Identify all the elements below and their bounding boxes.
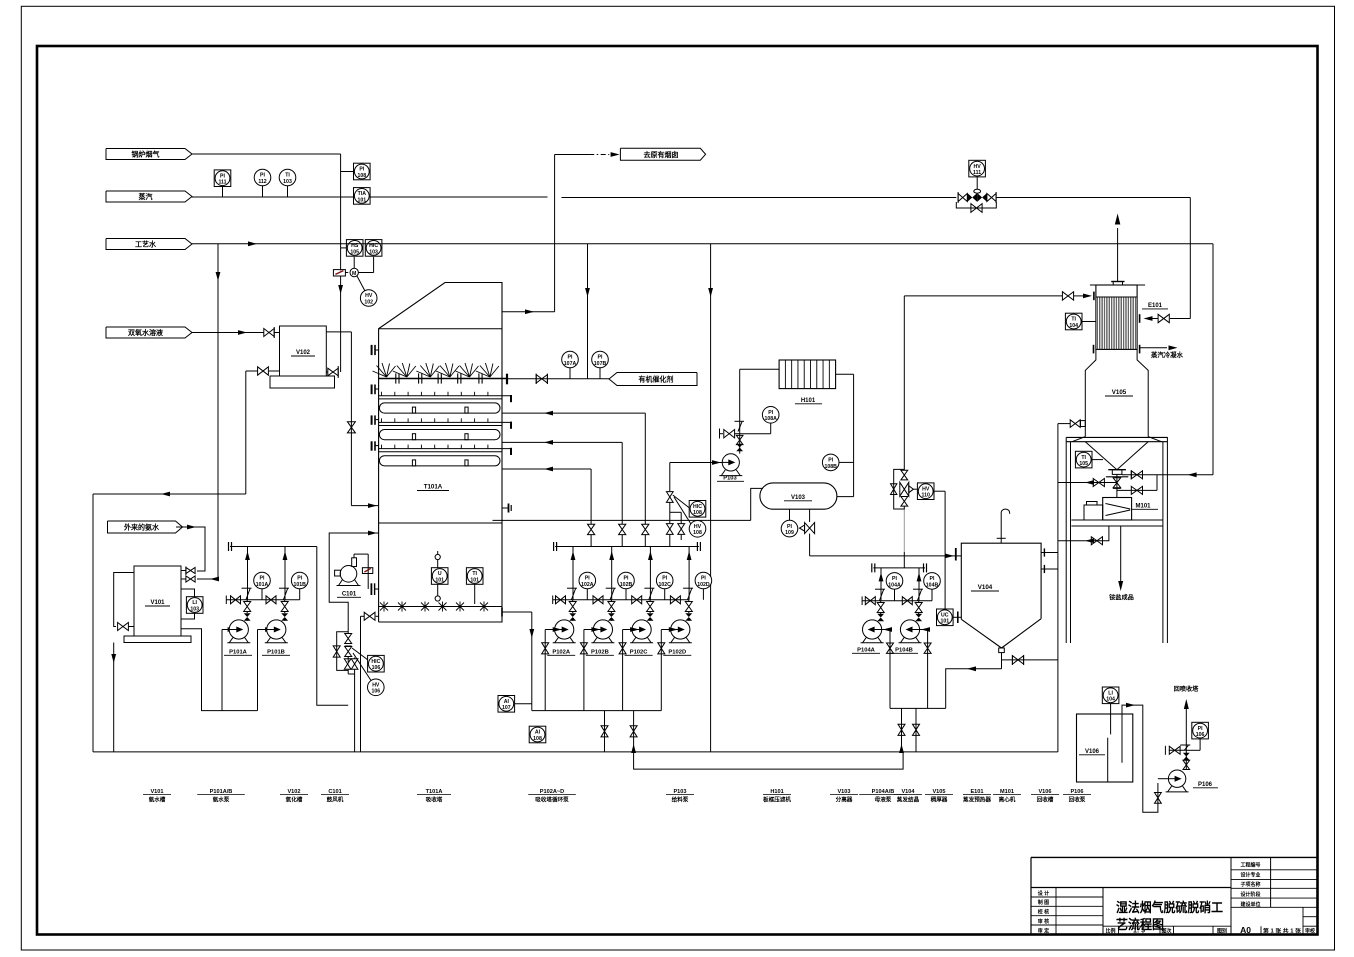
- tower spray header with nozzles: [373, 363, 508, 384]
- V104 right nozzle 2: [1041, 565, 1058, 573]
- svg-text:审 定: 审 定: [1038, 927, 1049, 934]
- svg-text:AI: AI: [504, 699, 510, 705]
- tower label T101A: [417, 484, 449, 491]
- E101 top cap: [1090, 282, 1145, 286]
- tower right nozzle: [502, 504, 511, 513]
- P104 discharge header: [872, 563, 927, 572]
- instrument HV-108: [689, 521, 706, 538]
- instrument PI-107A: [562, 351, 579, 379]
- wire P104 drain risers: [898, 708, 920, 753]
- flag 蒸汽 (steam): [106, 191, 192, 202]
- equipment label M101: [993, 789, 1021, 804]
- wire process water main: [192, 241, 1213, 246]
- svg-text:A0: A0: [1240, 925, 1251, 935]
- svg-text:LI: LI: [192, 600, 197, 606]
- equipment label V105: [925, 789, 953, 804]
- wire secondary line: [634, 752, 904, 769]
- wire V102 top outlet: [326, 332, 351, 506]
- label P102C: [625, 650, 653, 656]
- svg-text:图别: 图别: [1217, 927, 1227, 934]
- wire tower overflow line: [493, 519, 751, 521]
- svg-text:108: 108: [357, 173, 366, 179]
- label P101A: [224, 650, 252, 656]
- equipment label V104: [894, 789, 922, 804]
- V106 suction siphon: [1122, 703, 1161, 813]
- svg-text:V101: V101: [150, 789, 163, 795]
- V103 bottom valve: [800, 509, 815, 556]
- svg-text:PI: PI: [1198, 726, 1203, 732]
- P101B discharge riser: [279, 547, 289, 621]
- svg-text:回喷收塔: 回喷收塔: [1174, 685, 1200, 693]
- svg-text:PI: PI: [220, 173, 225, 179]
- flag 锅炉烟气 (boiler flue gas): [106, 149, 192, 160]
- svg-text:TI: TI: [1081, 455, 1086, 461]
- wire V101 drain downpipe: [111, 643, 116, 752]
- svg-text:102D: 102D: [697, 582, 710, 588]
- wire organic catalyst line: [507, 378, 609, 380]
- wire H2O2 to valve: [192, 330, 264, 335]
- svg-text:HV: HV: [365, 293, 373, 299]
- wire P102C suction: [619, 627, 639, 711]
- P101 discharge header: [229, 542, 317, 551]
- wire recovery downcomer: [1057, 424, 1059, 752]
- wire tray return 3: [502, 467, 591, 524]
- svg-text:105: 105: [350, 249, 359, 255]
- wire tower outlet gas: [502, 309, 555, 314]
- P102B discharge riser: [606, 547, 616, 621]
- pump P103: [719, 454, 742, 476]
- tower internal level line: [379, 522, 502, 524]
- svg-text:P101A/B: P101A/B: [210, 789, 233, 795]
- label P106: [1193, 782, 1218, 788]
- instrument PI-108B: [822, 454, 853, 471]
- instrument PI-102A: [579, 572, 596, 600]
- V104 feed nozzle flange: [956, 548, 962, 561]
- label C101: [337, 592, 361, 598]
- svg-text:LI: LI: [1108, 691, 1113, 697]
- wire V102 drain to downpipe: [246, 371, 258, 494]
- instrument PI-102C: [656, 572, 673, 600]
- title block right labels: [1239, 862, 1260, 908]
- svg-text:鼓风机: 鼓风机: [327, 796, 344, 804]
- svg-text:HV: HV: [922, 486, 930, 492]
- tower tray section 1: [379, 392, 511, 413]
- UC101 nozzle flange: [958, 612, 962, 624]
- valve riser4 main: [666, 524, 673, 535]
- wire pw branch long vertical: [708, 244, 713, 752]
- instrument TI-104: [1065, 313, 1096, 330]
- svg-text:V101: V101: [150, 600, 165, 606]
- svg-text:102: 102: [364, 299, 373, 305]
- leader HIC-106: [352, 648, 372, 682]
- P102 discharge header: [554, 542, 701, 551]
- P101 minflow line: [226, 596, 299, 605]
- svg-text:PI: PI: [624, 576, 629, 582]
- wire P101 header downpipe: [317, 547, 348, 706]
- M101 centrate line: [1058, 526, 1109, 545]
- svg-text:PI: PI: [768, 410, 773, 416]
- svg-text:审校: 审校: [1305, 927, 1316, 934]
- instrument AI-107: [498, 696, 532, 713]
- valve on V102-tower line: [347, 422, 355, 433]
- vessel V101: [134, 566, 181, 636]
- svg-text:AI: AI: [535, 730, 541, 736]
- C101 discharge stub: [352, 558, 357, 567]
- wire P104A suction: [882, 627, 894, 708]
- wire into tower gas inlet: [351, 503, 378, 508]
- label V105: [1105, 389, 1133, 396]
- svg-text:P104A: P104A: [857, 648, 876, 654]
- svg-text:103: 103: [369, 249, 378, 255]
- wire tray return 2: [502, 440, 622, 524]
- svg-text:蒸发预热器: 蒸发预热器: [963, 796, 991, 804]
- svg-text:111: 111: [973, 170, 981, 176]
- svg-text:V104: V104: [901, 789, 915, 795]
- flag 外来的氨水 (external ammonia): [108, 521, 183, 533]
- svg-text:设计专业: 设计专业: [1240, 871, 1260, 878]
- instrument HV-110: [913, 483, 945, 500]
- svg-text:V104: V104: [978, 584, 993, 591]
- vessel V102: [280, 326, 327, 376]
- svg-text:102A: 102A: [581, 582, 594, 588]
- svg-text:PI: PI: [598, 355, 603, 361]
- instrument PI-108A: [740, 407, 779, 434]
- svg-text:111: 111: [218, 180, 226, 186]
- svg-text:HV: HV: [973, 164, 981, 170]
- label P102B: [586, 650, 614, 656]
- wire flue gas flag to corner: [192, 153, 341, 155]
- wire drain recycle loop: [329, 531, 378, 633]
- label M101: [1132, 504, 1158, 510]
- instrument HIC-108: [689, 501, 706, 518]
- E101 bottom flanges: [1094, 345, 1140, 354]
- wire branch back left: [1117, 486, 1157, 494]
- svg-text:101: 101: [357, 197, 366, 203]
- wire P104B suction: [920, 627, 932, 708]
- svg-text:工艺水: 工艺水: [135, 239, 157, 248]
- V102 drain valve left: [258, 367, 280, 375]
- svg-text:设 计: 设 计: [1038, 890, 1049, 897]
- equipment label V101: [143, 789, 171, 804]
- svg-text:105: 105: [1079, 461, 1088, 467]
- svg-text:P104A/B: P104A/B: [872, 789, 895, 795]
- E101 left inlet: [904, 292, 1094, 301]
- svg-text:108A: 108A: [764, 416, 777, 422]
- svg-text:C101: C101: [342, 592, 357, 598]
- instrument LI-103: [186, 597, 203, 614]
- svg-text:108: 108: [533, 736, 542, 742]
- wire tray return 1: [502, 411, 645, 524]
- svg-text:PI: PI: [297, 576, 302, 582]
- wire branch down: [1156, 475, 1158, 491]
- svg-text:V102: V102: [287, 789, 300, 795]
- instrument PI-108 on flue line: [341, 163, 371, 180]
- drain manifold bypass: [333, 632, 348, 671]
- wire E101 riser lower: [903, 552, 905, 568]
- label return to tower: [1174, 685, 1200, 693]
- label P102A: [547, 650, 575, 656]
- wire P102A suction: [542, 627, 562, 711]
- P103 riser to H101: [735, 369, 780, 434]
- svg-text:双氧水溶液: 双氧水溶液: [128, 328, 164, 337]
- wire P103 feed line: [670, 460, 723, 465]
- label P104B: [890, 648, 918, 654]
- svg-text:给料泵: 给料泵: [672, 796, 689, 804]
- svg-text:112: 112: [258, 179, 266, 185]
- svg-text:外来的氨水: 外来的氨水: [124, 522, 160, 531]
- HV110 valve manifold: [900, 296, 914, 510]
- svg-text:1: 5: 1: 5: [1133, 928, 1145, 935]
- wire ammonia flag to V101: [176, 525, 205, 571]
- svg-text:107B: 107B: [594, 361, 607, 367]
- wire drain riser 2: [630, 711, 637, 753]
- svg-text:U: U: [438, 571, 442, 577]
- wire steam flag to TIA: [192, 196, 353, 198]
- V104 drain valve to V106 line: [1002, 655, 1058, 665]
- V104 right nozzle 1: [1041, 548, 1058, 556]
- motor symbol M on damper: [345, 257, 373, 277]
- svg-text:TI: TI: [285, 173, 290, 179]
- pump P106: [1166, 770, 1189, 792]
- wire return 1 to header: [644, 535, 646, 547]
- V105 outlet spool: [1106, 470, 1128, 477]
- V105 left nozzle: [1058, 420, 1085, 428]
- wire return 2 to header: [621, 535, 623, 547]
- P104 suction header: [890, 707, 946, 709]
- instrument PI-106: [1186, 722, 1208, 750]
- flag 去原有烟囱 (to existing stack): [620, 148, 705, 160]
- pump P102C: [630, 620, 653, 643]
- svg-text:铵盐成品: 铵盐成品: [1109, 594, 1134, 602]
- svg-text:E101: E101: [970, 789, 983, 795]
- valve on catalyst line: [536, 374, 547, 384]
- wire E101 riser gray segment: [903, 510, 905, 553]
- svg-text:HIC: HIC: [371, 659, 380, 665]
- svg-text:PI: PI: [568, 355, 573, 361]
- wire recycle to left header: [93, 492, 246, 497]
- equipment label P106: [1063, 789, 1091, 804]
- valve into V102 right nozzle: [328, 366, 338, 378]
- tower aeration sparger: [379, 602, 502, 612]
- wire riser 4 mid: [670, 503, 681, 524]
- wire P101B suction: [258, 627, 275, 711]
- wire P106 suction: [1158, 778, 1169, 780]
- V105 outlet valve: [1113, 474, 1121, 497]
- svg-text:104: 104: [1106, 697, 1115, 703]
- svg-text:PI: PI: [359, 167, 364, 173]
- label V104: [971, 584, 999, 591]
- svg-text:M: M: [352, 271, 356, 277]
- wire pw branch to V101: [216, 244, 221, 579]
- tower tray section 2: [379, 418, 511, 439]
- wire tower sump outlet: [502, 608, 534, 711]
- pump P104B: [899, 620, 922, 643]
- butterfly damper with actuator M: [333, 270, 345, 276]
- svg-text:第 1 张 共 1 张: 第 1 张 共 1 张: [1263, 927, 1302, 934]
- svg-text:102C: 102C: [658, 582, 671, 588]
- wire HV110 to UC101: [944, 491, 946, 610]
- instrument PI-104A: [886, 573, 903, 601]
- wire left header downpipe: [92, 494, 94, 752]
- svg-text:制 图: 制 图: [1038, 899, 1049, 906]
- svg-text:V106: V106: [1085, 749, 1100, 755]
- blower C101: [335, 566, 361, 586]
- instrument TI-103 with stem: [279, 169, 296, 197]
- flag 双氧水溶液 (H2O2 solution): [106, 327, 192, 338]
- wire pw to M101 feed: [1157, 472, 1213, 477]
- wire V105 drain left: [1058, 479, 1117, 487]
- pump P102D: [669, 620, 692, 643]
- svg-text:108: 108: [693, 510, 702, 516]
- svg-text:P102C: P102C: [630, 650, 649, 656]
- svg-text:M101: M101: [1135, 504, 1151, 510]
- svg-text:回收泵: 回收泵: [1069, 796, 1086, 804]
- svg-text:PI: PI: [701, 576, 706, 582]
- tower left nozzle 3: [372, 415, 379, 424]
- svg-text:TI: TI: [1071, 317, 1076, 323]
- tower left nozzle 2: [372, 385, 379, 395]
- instrument TI-101 in tower: [466, 568, 483, 604]
- wire drain to bottom line: [348, 669, 354, 752]
- svg-text:TI: TI: [472, 571, 477, 577]
- tower T101A shell: [379, 283, 502, 623]
- valve ammonia inlet: [181, 567, 195, 576]
- instrument AI-108: [529, 726, 546, 743]
- wire P102D suction: [658, 627, 678, 711]
- instrument HS-105: [341, 240, 363, 257]
- label P102D: [663, 650, 691, 656]
- P104B discharge riser: [913, 568, 923, 621]
- wire pw branch to catalyst line: [585, 244, 590, 379]
- pump P102A: [553, 620, 576, 643]
- instrument PI-107B: [592, 351, 609, 379]
- valve drain manifold 2 actuated: [345, 646, 352, 657]
- M101 product line: [1118, 526, 1123, 591]
- svg-text:锅炉烟气: 锅炉烟气: [131, 149, 160, 158]
- svg-text:蒸汽冷凝水: 蒸汽冷凝水: [1151, 350, 1184, 359]
- svg-text:HIC: HIC: [693, 504, 702, 510]
- svg-text:图次: 图次: [1161, 927, 1171, 934]
- pump P104A: [861, 620, 884, 643]
- P106 discharge: [1180, 699, 1190, 770]
- valve drain manifold 1: [345, 634, 352, 644]
- instrument PI-111 with stem: [214, 170, 231, 197]
- instrument TI-105: [1075, 451, 1103, 468]
- equipment label T101A: [417, 789, 451, 804]
- instrument PI-112 with stem: [254, 169, 271, 197]
- V104 apex outlet: [999, 648, 1005, 669]
- svg-text:107: 107: [502, 705, 511, 711]
- svg-text:P102A: P102A: [552, 650, 571, 656]
- tower left nozzle 4: [372, 441, 379, 450]
- svg-text:PI: PI: [787, 524, 792, 530]
- M101 motor box: [1084, 502, 1103, 521]
- instrument HIC-106: [368, 655, 385, 672]
- wire valve to V102: [326, 371, 328, 373]
- P102C discharge riser: [644, 547, 654, 621]
- valve on H2O2 line: [264, 327, 274, 338]
- air line flange into tower: [371, 583, 378, 595]
- tower tray section 3: [379, 445, 511, 466]
- flag 有机催化剂 (organic catalyst): [609, 373, 697, 386]
- svg-text:吸收塔: 吸收塔: [426, 796, 443, 804]
- svg-text:回收槽: 回收槽: [1037, 796, 1054, 804]
- svg-text:V105: V105: [1112, 389, 1127, 396]
- instrument PI-104B: [924, 573, 941, 601]
- svg-text:106: 106: [372, 665, 381, 671]
- label E101: [1142, 303, 1168, 309]
- wire V105 branch right: [1122, 470, 1157, 479]
- P102A discharge riser: [567, 547, 577, 621]
- HV110 bypass loop: [891, 469, 905, 509]
- wire V104 drain to suction: [946, 666, 1002, 708]
- svg-text:101: 101: [470, 577, 479, 583]
- leader lines HIC-108: [673, 495, 691, 524]
- twin drain valves: [344, 657, 358, 669]
- wire flue gas damper to V102 valve: [338, 276, 343, 372]
- equipment label V103: [830, 789, 858, 804]
- svg-text:PI: PI: [662, 576, 667, 582]
- P102 minflow line: [553, 596, 690, 605]
- P103 discharge assembly: [720, 429, 744, 454]
- equipment label E101: [963, 789, 991, 804]
- svg-text:子项名称: 子项名称: [1240, 881, 1260, 888]
- svg-text:104B: 104B: [926, 582, 939, 588]
- V102 pedestal: [270, 376, 335, 388]
- steam control valve station with bypass: [956, 177, 996, 212]
- svg-text:分离器: 分离器: [836, 796, 853, 804]
- svg-text:E101: E101: [1148, 303, 1163, 309]
- svg-text:V103: V103: [791, 495, 806, 501]
- svg-text:101: 101: [435, 577, 444, 583]
- svg-text:101: 101: [940, 619, 949, 625]
- wire steam line to valve station: [562, 197, 957, 199]
- support frame: [1066, 437, 1168, 643]
- M101 platform: [1071, 520, 1163, 526]
- instrument HIC-103: [365, 240, 382, 257]
- instrument HV-111: [969, 160, 986, 177]
- wire stack line with dashes: [555, 152, 620, 157]
- label V106: [1079, 749, 1105, 755]
- svg-text:104: 104: [1069, 323, 1078, 329]
- V101 pedestal: [124, 636, 191, 643]
- P102 suction header: [532, 710, 662, 712]
- svg-text:蒸汽: 蒸汽: [139, 192, 153, 201]
- svg-text:108B: 108B: [824, 464, 837, 470]
- wire drain riser 1: [601, 711, 608, 752]
- svg-text:P101B: P101B: [267, 650, 285, 656]
- vessel V105 shell: [1085, 349, 1148, 436]
- svg-text:去原有烟囱: 去原有烟囱: [644, 150, 679, 159]
- centrifuge M101: [1103, 498, 1132, 521]
- wire V101 outlet to pumps: [181, 629, 258, 711]
- heat exchanger E101: [1096, 285, 1137, 349]
- leader M to HV-102: [357, 276, 365, 291]
- svg-text:氧化槽: 氧化槽: [286, 796, 303, 804]
- instrument PI-102D: [695, 572, 712, 600]
- svg-text:H101: H101: [801, 398, 816, 404]
- vessel V104: [961, 543, 1041, 648]
- svg-text:吸收塔循环泵: 吸收塔循环泵: [535, 796, 569, 804]
- label P104A: [852, 648, 880, 654]
- P101A discharge riser: [242, 547, 252, 621]
- svg-text:103: 103: [190, 606, 199, 612]
- svg-text:HV: HV: [372, 683, 380, 689]
- svg-text:V106: V106: [1038, 789, 1051, 795]
- svg-text:106: 106: [1196, 732, 1205, 738]
- P102D discharge riser: [683, 547, 693, 621]
- P106 drain tee: [1165, 746, 1186, 755]
